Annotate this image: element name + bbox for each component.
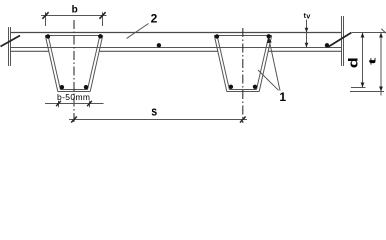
svg-text:t: t [367,57,378,65]
rib 2 bottom outer line [227,91,259,93]
dimension s: tick left [71,117,77,123]
rib 2 right inner wall [257,36,269,89]
rib 1 bottom inner line [60,89,87,91]
rib 1 bottom outer line [58,91,90,93]
rib 1 right outer wall [90,36,103,92]
rib 1 right inner wall [88,36,100,89]
dimension d: line [362,33,364,88]
svg-text:s: s [151,103,157,118]
deck top flange segment right [268,50,341,52]
dimension b-50mm: tick right [87,101,92,106]
rib 2 bottom inner line [229,89,256,91]
dimension b-50mm: extension right [89,101,91,108]
top sheet top face line A [11,32,342,34]
weld dot mid-span [157,43,161,47]
svg-text:2: 2 [151,12,158,26]
dimension s: line [69,119,247,121]
leader for label 1 to weld dot [269,39,280,91]
right dimensions: top extension line [352,32,386,34]
rib 1 left inner wall [48,36,60,89]
weld dot rib2 bottom-left [229,85,233,89]
weld dot rib1 top-right [98,34,102,38]
svg-text:b-50mm: b-50mm [57,92,90,102]
dimension b: extension line right [102,12,104,26]
dimension s: tick right [240,117,246,123]
deck top flange segment left [11,50,49,52]
svg-text:tv: tv [304,13,311,20]
rib 2 centerline [242,28,244,123]
left break line [8,27,10,66]
rib 2 top closure line [214,35,271,37]
dimension b: tick left [42,12,48,19]
right dimensions: top-right end slash [381,29,386,33]
top sheet bottom face line B1 [11,47,342,49]
dimension t: arrow bottom [379,87,383,92]
rib 2 left inner wall [217,36,229,89]
dimension t: line [380,33,382,96]
dimension d: extension at bottom [351,87,366,89]
rib 2 right outer wall [259,36,272,92]
rib 2 left outer wall [214,36,227,92]
dimension t: extension at bottom [350,91,384,93]
leader 1 arrowhead [267,38,272,44]
weld dot rib2 top-left [215,34,219,38]
svg-text:b: b [72,4,78,15]
weld dot rib2 bottom-right [253,85,257,89]
right break line [341,16,343,66]
dimension d: arrow top [361,33,365,38]
weld dot right-end [325,43,329,47]
dimension tv: arrowhead at top sheet bottom [305,43,309,48]
dimension b: tick right [99,12,105,19]
dimension b-50mm: line [45,103,104,105]
rib 1 top closure line [45,35,102,37]
dimension tv: arrowhead at top sheet top [305,28,309,33]
leader for label 2 [127,24,149,39]
dimension d: arrow bottom [361,83,365,88]
weld dot rib1 bottom-left [60,85,64,89]
rib 1 left outer wall [45,36,58,92]
leader for label 1 to rib wall [258,70,279,90]
dimension t: arrow top [379,33,383,38]
svg-text:1: 1 [279,90,286,104]
weld dot rib1 top-left [46,34,50,38]
deck top flange segment middle [99,50,218,52]
right break slash [328,33,352,48]
weld dot rib2 top-right [267,34,271,38]
dimension b-50mm: extension left [58,101,60,108]
rib 1 centerline [73,20,75,123]
svg-text:d: d [347,57,361,68]
weld dot rib1 bottom-right [84,85,88,89]
dimension tv: line [306,20,308,48]
left break slash [1,36,21,47]
dimension b-50mm: tick left [56,101,61,106]
dimension b: extension line left [45,12,47,26]
dimension b: line [41,15,107,17]
